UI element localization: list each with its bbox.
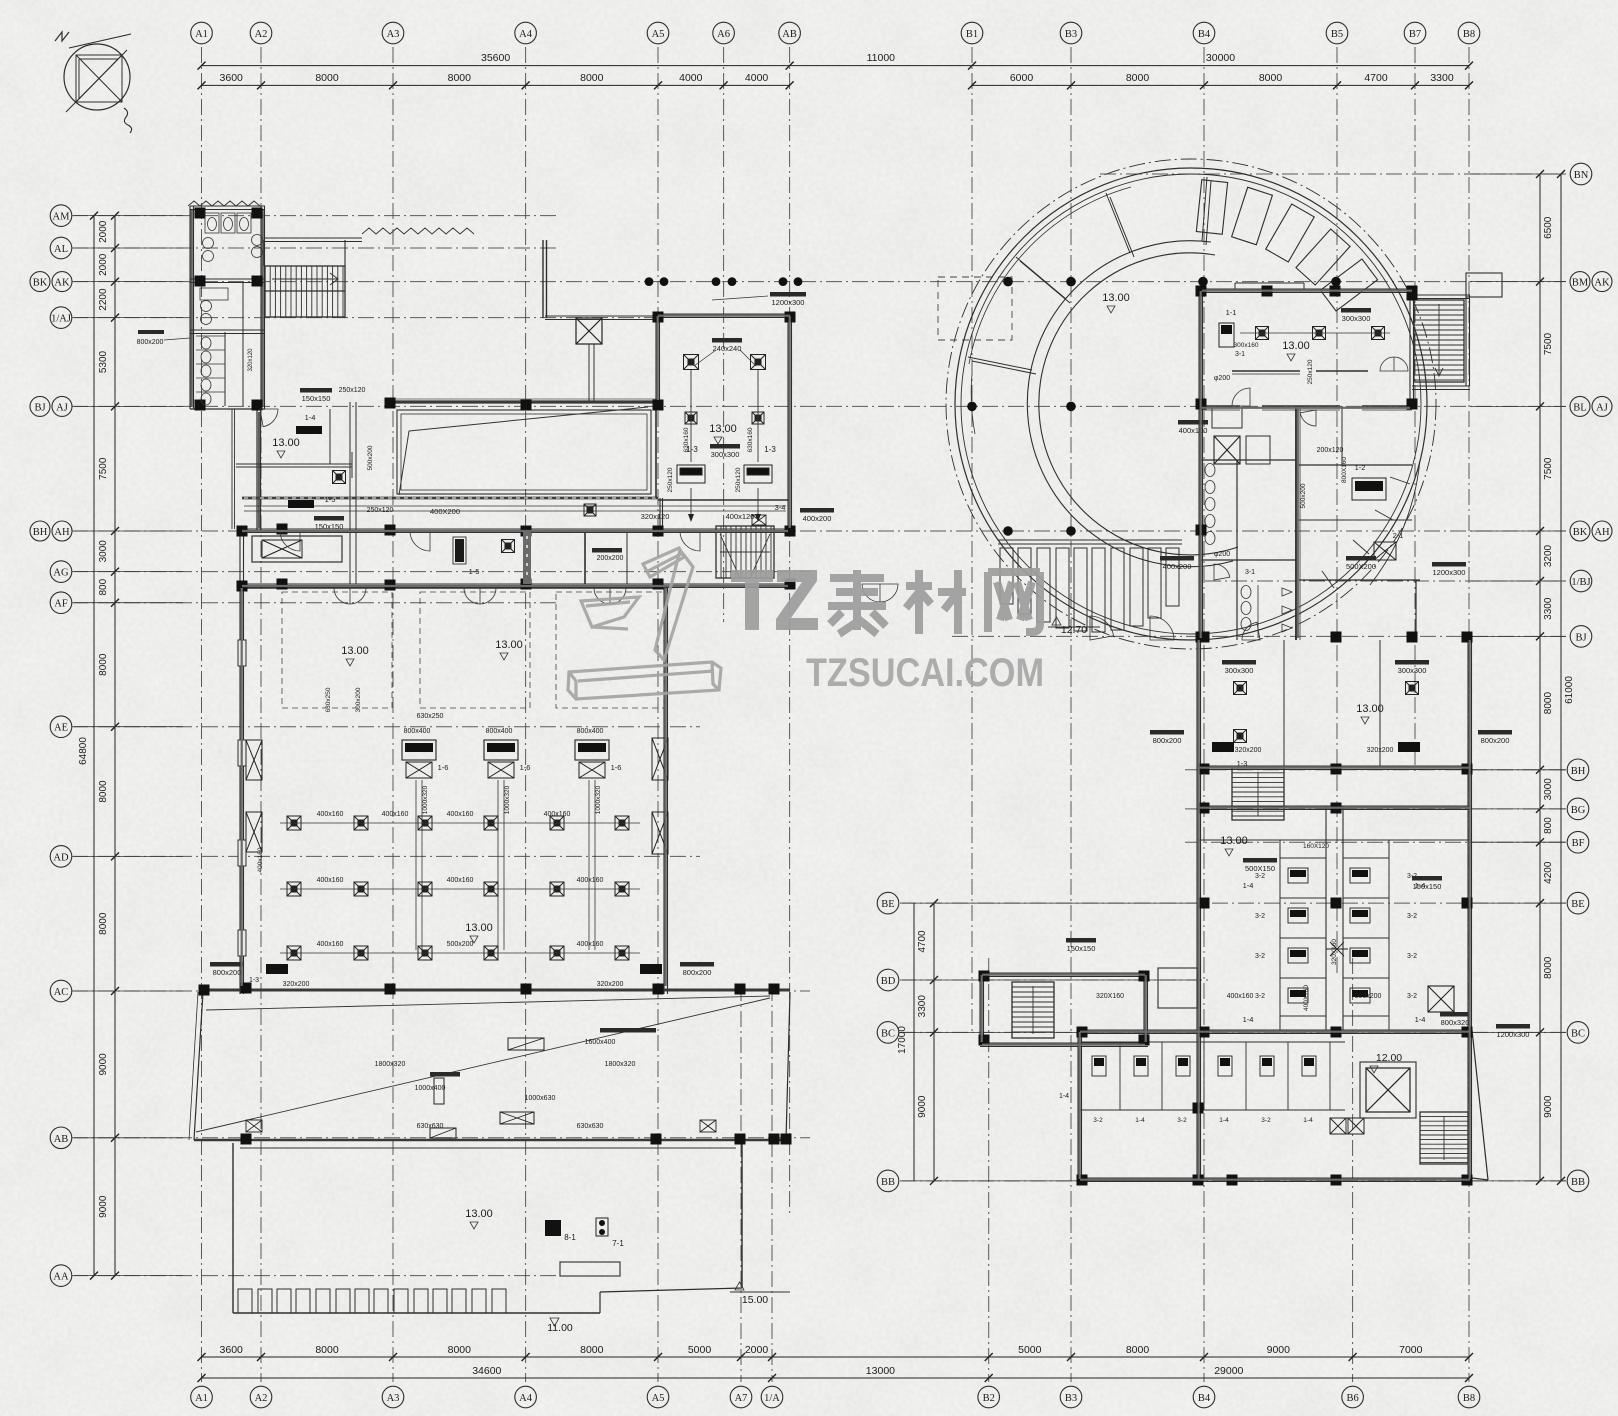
svg-text:BK: BK: [33, 278, 48, 289]
wall gray infill: [242, 291, 1470, 1180]
svg-text:400x200: 400x200: [1163, 562, 1192, 571]
stair annex: [1012, 982, 1054, 1038]
svg-text:AB: AB: [782, 29, 797, 40]
svg-text:A2: A2: [255, 1393, 268, 1404]
svg-text:800x400: 800x400: [404, 728, 431, 735]
left annex block: [980, 973, 1148, 1047]
svg-text:9000: 9000: [917, 1095, 928, 1118]
svg-text:B5: B5: [1331, 29, 1343, 40]
svg-text:630x630: 630x630: [577, 1123, 604, 1130]
svg-text:800x200: 800x200: [137, 339, 164, 346]
svg-text:150x150: 150x150: [315, 522, 344, 531]
svg-text:3600: 3600: [220, 72, 244, 84]
tower mid units: [1160, 447, 1466, 577]
svg-text:AM: AM: [53, 212, 71, 223]
mid band rooms (BJ..BH): [1150, 640, 1512, 1181]
svg-text:BE: BE: [1571, 899, 1584, 910]
svg-text:12.70: 12.70: [1061, 624, 1087, 636]
svg-text:160X120: 160X120: [1303, 843, 1329, 850]
svg-text:3-2: 3-2: [1177, 1117, 1187, 1124]
svg-text:13.00: 13.00: [465, 1208, 493, 1220]
svg-text:2200: 2200: [98, 288, 109, 311]
svg-text:150x150: 150x150: [302, 394, 331, 403]
dots on AK line between buildings: [645, 277, 803, 286]
svg-text:3-2: 3-2: [1407, 953, 1417, 960]
bottom band (BC..BB): [1059, 938, 1530, 1182]
svg-text:φ200: φ200: [1214, 551, 1230, 558]
svg-text:BM: BM: [1572, 278, 1589, 289]
svg-text:3300: 3300: [1543, 597, 1554, 620]
axis circles mid (BE BD BC BB): [877, 892, 899, 1191]
svg-text:8000: 8000: [1259, 72, 1283, 84]
svg-text:8000: 8000: [1126, 1344, 1150, 1356]
svg-text:BH: BH: [1571, 766, 1586, 777]
svg-text:A7: A7: [735, 1393, 748, 1404]
right building columns: [979, 286, 1473, 1186]
round columns on grid (circle area): [967, 277, 1341, 536]
svg-text:61000: 61000: [1564, 676, 1575, 704]
svg-text:13.00: 13.00: [709, 423, 737, 435]
svg-text:7-1: 7-1: [612, 1239, 624, 1248]
svg-text:35600: 35600: [481, 52, 510, 64]
svg-text:1-6: 1-6: [520, 763, 531, 772]
left dimension lines: [74, 212, 183, 1280]
rooms strip details: [280, 471, 898, 605]
svg-text:400x160: 400x160: [317, 941, 344, 948]
svg-text:A6: A6: [717, 29, 730, 40]
svg-text:4700: 4700: [1364, 72, 1388, 84]
svg-text:13.00: 13.00: [1220, 835, 1248, 847]
svg-text:1000x320: 1000x320: [595, 785, 602, 814]
svg-text:1-4: 1-4: [1243, 1015, 1254, 1024]
svg-text:4000: 4000: [745, 72, 769, 84]
svg-text:1-6: 1-6: [611, 763, 622, 772]
svg-text:800X160: 800X160: [1341, 457, 1348, 483]
svg-text:1-4: 1-4: [305, 413, 316, 422]
svg-text:A5: A5: [652, 1393, 665, 1404]
svg-text:7500: 7500: [98, 457, 109, 480]
svg-text:BC: BC: [881, 1028, 895, 1039]
svg-text:B8: B8: [1463, 1393, 1475, 1404]
svg-text:1-3: 1-3: [764, 445, 776, 454]
svg-text:B1: B1: [966, 29, 978, 40]
svg-text:3-1: 3-1: [1245, 569, 1255, 576]
svg-text:150x150: 150x150: [1067, 944, 1096, 953]
watermark CJK text TZ素材网: [731, 570, 1040, 634]
svg-text:3-2: 3-2: [1255, 993, 1265, 1000]
svg-text:1-4: 1-4: [1243, 881, 1254, 890]
svg-text:320x120: 320x120: [641, 512, 670, 521]
svg-text:AA: AA: [53, 1272, 69, 1283]
svg-text:13.00: 13.00: [1356, 703, 1384, 715]
svg-text:8000: 8000: [315, 72, 339, 84]
svg-text:3300: 3300: [1430, 72, 1454, 84]
svg-text:500X200: 500X200: [1346, 562, 1376, 571]
svg-text:B7: B7: [1409, 29, 1421, 40]
dashed rect left of circle: [938, 277, 1012, 340]
svg-text:300x200: 300x200: [355, 687, 362, 712]
svg-text:8000: 8000: [98, 653, 109, 676]
svg-text:A1: A1: [195, 1393, 208, 1404]
svg-text:4700: 4700: [917, 930, 928, 953]
svg-text:240x240: 240x240: [713, 344, 742, 353]
big hall interior: [210, 592, 714, 988]
svg-text:250x120: 250x120: [735, 467, 742, 492]
svg-text:800: 800: [98, 578, 109, 595]
svg-text:800x200: 800x200: [213, 968, 242, 977]
svg-text:8000: 8000: [580, 72, 604, 84]
svg-text:3000: 3000: [1543, 778, 1554, 801]
svg-text:2000: 2000: [98, 220, 109, 243]
svg-text:1-4: 1-4: [1303, 1117, 1313, 1124]
svg-text:8000: 8000: [98, 780, 109, 803]
svg-text:2000: 2000: [745, 1344, 769, 1356]
svg-text:400x160: 400x160: [1227, 993, 1254, 1000]
svg-text:1-2: 1-2: [1355, 463, 1366, 472]
stair S3 right (x718..772): [716, 526, 774, 578]
svg-text:15.00: 15.00: [742, 1294, 768, 1306]
svg-text:400x160: 400x160: [577, 877, 604, 884]
svg-text:AK: AK: [54, 278, 70, 289]
svg-text:3-4: 3-4: [775, 503, 786, 512]
svg-text:400X160: 400X160: [1303, 985, 1310, 1011]
svg-text:64800: 64800: [78, 737, 89, 765]
svg-text:1-5: 1-5: [325, 495, 336, 504]
svg-text:3-2: 3-2: [1261, 1117, 1271, 1124]
svg-text:200x120: 200x120: [1317, 447, 1344, 454]
svg-text:800x320: 800x320: [1441, 1018, 1470, 1027]
svg-text:8000: 8000: [580, 1344, 604, 1356]
svg-text:5300: 5300: [98, 350, 109, 373]
svg-text:A2: A2: [255, 29, 268, 40]
elevator pair left wall: [246, 740, 262, 780]
right dimension lines: [1470, 170, 1575, 1185]
trapezoid area details: [246, 1028, 716, 1138]
tower elevators: [1214, 436, 1240, 464]
svg-text:400x160: 400x160: [317, 811, 344, 818]
svg-text:BE: BE: [881, 899, 894, 910]
svg-text:A3: A3: [387, 1393, 400, 1404]
stair S1 top: [265, 266, 345, 317]
svg-text:400x160: 400x160: [257, 847, 264, 872]
svg-text:8000: 8000: [448, 72, 472, 84]
svg-text:250x120: 250x120: [1307, 359, 1314, 384]
svg-text:400x100: 400x100: [1179, 426, 1208, 435]
svg-text:AH: AH: [54, 527, 70, 538]
svg-text:BD: BD: [881, 976, 896, 987]
bottom dimension lines: [198, 1344, 1474, 1382]
svg-text:B8: B8: [1463, 29, 1475, 40]
terrace planters: [238, 1289, 506, 1313]
circle top window boxes: [1196, 180, 1410, 588]
svg-text:AH: AH: [1594, 527, 1610, 538]
upper room diffusers and fans: [667, 338, 785, 525]
svg-text:AG: AG: [53, 568, 69, 579]
svg-text:3-2: 3-2: [1093, 1117, 1103, 1124]
elevator lobby box near AG: [252, 536, 342, 562]
svg-text:13.00: 13.00: [341, 645, 369, 657]
svg-text:400x160: 400x160: [382, 811, 409, 818]
svg-text:400x160: 400x160: [577, 941, 604, 948]
svg-text:3000: 3000: [98, 540, 109, 563]
svg-text:BJ: BJ: [34, 402, 45, 413]
svg-text:300x300: 300x300: [711, 450, 740, 459]
axis circles right: [1567, 163, 1612, 1192]
svg-text:1-5: 1-5: [469, 567, 480, 576]
tower core outline: [1199, 283, 1470, 640]
svg-text:AF: AF: [54, 599, 68, 610]
NE annex box: [1466, 273, 1502, 297]
svg-text:8000: 8000: [1543, 692, 1554, 715]
axis circles left: [30, 205, 72, 1287]
svg-text:AC: AC: [54, 987, 69, 998]
svg-text:320x200: 320x200: [597, 981, 624, 988]
wall pier at A4 and 1-5 duct: [523, 532, 531, 584]
axis circles top: [191, 22, 1480, 44]
svg-text:2000: 2000: [98, 253, 109, 276]
circle inner C-band: [1027, 241, 1238, 567]
svg-text:630x160: 630x160: [683, 427, 690, 452]
svg-text:800x200: 800x200: [683, 968, 712, 977]
svg-text:B4: B4: [1198, 1393, 1211, 1404]
svg-text:5000: 5000: [1018, 1344, 1042, 1356]
svg-text:5000: 5000: [688, 1344, 712, 1356]
svg-text:9000: 9000: [1267, 1344, 1291, 1356]
svg-text:800x200: 800x200: [1153, 736, 1182, 745]
svg-text:6500: 6500: [1543, 216, 1554, 239]
svg-text:300x160: 300x160: [1234, 342, 1259, 349]
svg-text:800x400: 800x400: [577, 728, 604, 735]
tower toilets fixtures: [1205, 464, 1292, 639]
svg-text:B3: B3: [1065, 29, 1077, 40]
svg-text:8000: 8000: [448, 1344, 472, 1356]
svg-text:3-2: 3-2: [1255, 913, 1265, 920]
svg-text:1200x300: 1200x300: [772, 298, 805, 307]
svg-text:A5: A5: [652, 29, 665, 40]
svg-text:7500: 7500: [1543, 332, 1554, 355]
svg-text:320X160: 320X160: [1096, 993, 1124, 1000]
svg-text:7500: 7500: [1543, 457, 1554, 480]
svg-text:1-4: 1-4: [1059, 1093, 1069, 1100]
left building walls: [137, 201, 792, 1313]
axis circles bottom: [191, 1386, 1480, 1408]
svg-text:630x630: 630x630: [417, 1123, 444, 1130]
svg-text:BC: BC: [1571, 1028, 1585, 1039]
svg-text:300x300: 300x300: [1225, 666, 1254, 675]
svg-text:1-6: 1-6: [438, 763, 449, 772]
svg-text:B3: B3: [1065, 1393, 1077, 1404]
svg-text:400x200: 400x200: [803, 514, 832, 523]
svg-text:500x200: 500x200: [367, 445, 374, 470]
svg-text:BL: BL: [1573, 402, 1586, 413]
annex small box: [1158, 968, 1198, 1008]
svg-text:8000: 8000: [1543, 956, 1554, 979]
svg-text:BB: BB: [881, 1177, 895, 1188]
svg-text:1600x400: 1600x400: [585, 1039, 616, 1046]
stair arrow NE: [1435, 304, 1443, 376]
svg-text:8000: 8000: [98, 912, 109, 935]
svg-text:1-4: 1-4: [1415, 1015, 1426, 1024]
svg-text:1-1: 1-1: [1226, 308, 1237, 317]
svg-text:150x150: 150x150: [1413, 882, 1442, 891]
svg-text:13.00: 13.00: [272, 437, 300, 449]
svg-text:AB: AB: [54, 1134, 69, 1145]
svg-text:3300: 3300: [917, 995, 928, 1018]
corridor texts: [430, 507, 834, 562]
svg-text:1000x320: 1000x320: [504, 785, 511, 814]
svg-text:A4: A4: [519, 29, 533, 40]
svg-text:B4: B4: [1198, 29, 1211, 40]
svg-text:3-2: 3-2: [1407, 913, 1417, 920]
svg-text:250x120: 250x120: [339, 387, 366, 394]
svg-text:320x120: 320x120: [248, 348, 254, 372]
svg-text:8-1: 8-1: [564, 1233, 576, 1242]
top dimension lines: [198, 52, 1474, 89]
svg-text:9000: 9000: [98, 1195, 109, 1218]
svg-text:1800x320: 1800x320: [605, 1061, 636, 1068]
svg-text:B6: B6: [1346, 1393, 1358, 1404]
svg-text:A4: A4: [519, 1393, 533, 1404]
svg-text:3-2: 3-2: [1255, 873, 1265, 880]
svg-text:1200x300: 1200x300: [1497, 1030, 1530, 1039]
svg-text:400x160: 400x160: [317, 877, 344, 884]
grid vertical lines: [202, 47, 1470, 1382]
svg-text:320x200: 320x200: [1235, 747, 1262, 754]
svg-text:1/BJ: 1/BJ: [1571, 577, 1590, 588]
svg-text:φ200: φ200: [1214, 375, 1230, 382]
big circle rings: [946, 159, 1436, 649]
svg-text:800x400: 800x400: [486, 728, 513, 735]
tower interior walls: [1201, 357, 1420, 640]
svg-text:1/A: 1/A: [764, 1393, 780, 1404]
svg-text:BN: BN: [1574, 170, 1589, 181]
svg-text:1000x400: 1000x400: [415, 1085, 446, 1092]
svg-text:BF: BF: [1572, 838, 1585, 849]
svg-text:B2: B2: [983, 1393, 995, 1404]
svg-text:AD: AD: [53, 852, 69, 863]
svg-text:250x120: 250x120: [367, 507, 394, 514]
svg-text:400x160: 400x160: [447, 877, 474, 884]
hotel rooms band (BG..BC): [1197, 806, 1472, 1030]
svg-text:800x200: 800x200: [1481, 736, 1510, 745]
svg-text:630x160: 630x160: [747, 427, 754, 452]
left building columns: [195, 208, 796, 1145]
svg-text:400X200: 400X200: [430, 507, 460, 516]
svg-text:4000: 4000: [679, 72, 703, 84]
svg-text:34600: 34600: [472, 1365, 501, 1377]
svg-text:3-2: 3-2: [1407, 993, 1417, 1000]
svg-text:13.00: 13.00: [495, 639, 523, 651]
svg-text:3-1: 3-1: [1235, 351, 1245, 358]
bottom-right slanted wall: [1472, 1030, 1488, 1180]
svg-text:3600: 3600: [220, 1344, 244, 1356]
grid horizontal lines: [72, 174, 1566, 1276]
svg-text:1-4: 1-4: [1135, 1117, 1145, 1124]
svg-text:1000x320: 1000x320: [422, 785, 429, 814]
svg-text:11000: 11000: [867, 52, 896, 64]
svg-text:800: 800: [1543, 817, 1554, 834]
svg-text:12.00: 12.00: [1376, 1052, 1402, 1064]
svg-text:TZSUCAI.COM: TZSUCAI.COM: [806, 651, 1044, 695]
svg-text:400x120: 400x120: [726, 512, 755, 521]
svg-text:1/AJ: 1/AJ: [51, 314, 71, 325]
svg-text:320x200: 320x200: [1367, 747, 1394, 754]
svg-text:3-2: 3-2: [1255, 953, 1265, 960]
svg-text:BH: BH: [33, 527, 48, 538]
svg-text:320x200: 320x200: [283, 981, 310, 988]
svg-text:1000x630: 1000x630: [525, 1095, 556, 1102]
svg-text:AL: AL: [54, 244, 68, 255]
svg-text:1-3: 1-3: [249, 977, 259, 984]
stair tower NE: [1414, 300, 1464, 382]
svg-text:630x250: 630x250: [417, 713, 444, 720]
tower top band units: [1102, 292, 1390, 435]
svg-text:400x160: 400x160: [544, 811, 571, 818]
svg-text:630x250: 630x250: [325, 687, 332, 712]
svg-text:500X150: 500X150: [1245, 864, 1275, 873]
svg-text:8000: 8000: [1126, 72, 1150, 84]
svg-text:BB: BB: [1571, 1177, 1585, 1188]
svg-text:400x160: 400x160: [447, 811, 474, 818]
svg-text:300x300: 300x300: [1398, 666, 1427, 675]
svg-text:6000: 6000: [1010, 72, 1034, 84]
svg-text:8000: 8000: [315, 1344, 339, 1356]
svg-text:13000: 13000: [866, 1365, 895, 1377]
svg-text:1800x320: 1800x320: [375, 1061, 406, 1068]
svg-text:BJ: BJ: [1575, 632, 1586, 643]
svg-text:AK: AK: [1594, 278, 1610, 289]
svg-text:13.00: 13.00: [1282, 340, 1310, 352]
wedge radial partitions: [968, 177, 1211, 434]
svg-text:AJ: AJ: [1596, 402, 1608, 413]
svg-text:500x200: 500x200: [1355, 993, 1382, 1000]
SE quadrant arc room walls: [1370, 460, 1420, 585]
svg-text:9000: 9000: [98, 1053, 109, 1076]
svg-text:29000: 29000: [1214, 1365, 1243, 1377]
svg-text:11.00: 11.00: [547, 1322, 573, 1334]
svg-text:13.00: 13.00: [465, 922, 493, 934]
parking slats lower-left of circle: [998, 540, 1182, 632]
svg-text:300x300: 300x300: [1342, 314, 1371, 323]
svg-text:A1: A1: [195, 29, 208, 40]
left upper rooms (x242..390): [236, 387, 394, 584]
stair mid tower: [1232, 768, 1284, 820]
elevator pair right wall: [652, 738, 668, 780]
svg-text:500x200: 500x200: [1300, 483, 1307, 508]
svg-text:9000: 9000: [1543, 1095, 1554, 1118]
svg-text:200x200: 200x200: [597, 555, 624, 562]
svg-text:3200: 3200: [1543, 544, 1554, 567]
duct risers top middle: [576, 318, 602, 344]
svg-text:500x200: 500x200: [447, 941, 474, 948]
svg-text:AE: AE: [54, 723, 68, 734]
svg-text:13.00: 13.00: [1102, 292, 1130, 304]
stair bottom right: [1420, 1112, 1468, 1164]
north arrow symbol: [55, 32, 132, 133]
svg-text:30000: 30000: [1206, 52, 1235, 64]
svg-text:250x120: 250x120: [667, 467, 674, 492]
svg-text:4200: 4200: [1543, 861, 1554, 884]
svg-text:7000: 7000: [1399, 1344, 1423, 1356]
svg-text:BG: BG: [1571, 805, 1586, 816]
svg-text:1-4: 1-4: [1219, 1117, 1229, 1124]
svg-text:BK: BK: [1573, 527, 1588, 538]
watermark logo pen: [568, 548, 721, 699]
svg-text:1200x300: 1200x300: [1433, 568, 1466, 577]
svg-text:A3: A3: [387, 29, 400, 40]
mid dimension chain BE-BB: [897, 899, 1198, 1185]
toilet fixtures top-left wing: [196, 213, 263, 405]
